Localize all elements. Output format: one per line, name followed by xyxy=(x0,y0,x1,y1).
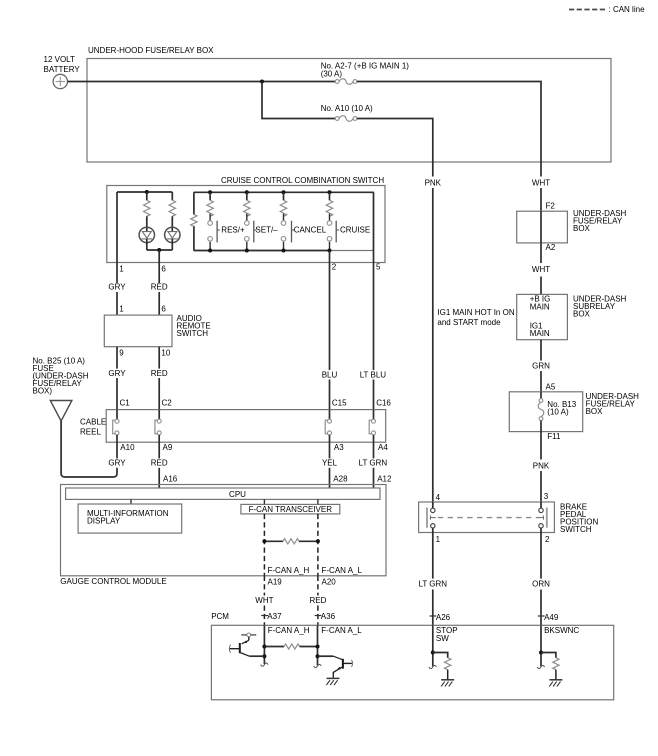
connector reel LT BLU xyxy=(369,410,375,443)
svg-text:F11: F11 xyxy=(547,432,561,441)
switch block inner box xyxy=(194,192,374,250)
svg-text:BOX: BOX xyxy=(586,407,604,416)
switch branch RES/+ xyxy=(207,190,245,252)
svg-text:A5: A5 xyxy=(546,382,556,391)
fuse No. B13 (10 A) xyxy=(538,392,577,432)
svg-text:5: 5 xyxy=(376,262,381,271)
svg-text:1: 1 xyxy=(119,305,124,314)
svg-text:CRUISE: CRUISE xyxy=(340,226,370,235)
svg-text:1: 1 xyxy=(436,535,441,544)
connector reel RED xyxy=(155,410,161,443)
node lamp bottom junction xyxy=(157,248,161,252)
svg-text:: CAN line: : CAN line xyxy=(609,5,646,14)
wire battery to fuse A2-7 xyxy=(68,81,336,83)
svg-text:RED: RED xyxy=(309,596,326,605)
under-hood fuse/relay box xyxy=(87,46,611,162)
svg-text:BOX: BOX xyxy=(573,310,591,319)
svg-text:A49: A49 xyxy=(544,613,559,622)
svg-text:A4: A4 xyxy=(378,443,388,452)
connector reel BLU xyxy=(325,410,331,443)
transistor Q1 CAN high driver xyxy=(229,633,264,656)
wire LT BLU pin 5 to cable reel xyxy=(373,263,375,410)
svg-text:BOX): BOX) xyxy=(33,387,53,396)
svg-text:RED: RED xyxy=(151,282,168,291)
under-dash fuse/relay box B13 xyxy=(509,392,639,432)
svg-text:F-CAN A_L: F-CAN A_L xyxy=(321,626,362,635)
wire CPU to F-CAN transceiver stubs xyxy=(264,499,318,504)
svg-text:9: 9 xyxy=(119,348,124,357)
switch branch CRUISE xyxy=(326,190,370,252)
svg-text:6: 6 xyxy=(161,264,166,273)
wire RED to A16 xyxy=(158,442,160,488)
wire switch bottom rail xyxy=(194,250,330,252)
svg-text:No. A10 (10 A): No. A10 (10 A) xyxy=(321,104,373,113)
pin A36 tick xyxy=(315,615,322,617)
svg-text:RED: RED xyxy=(151,459,168,468)
svg-text:REEL: REEL xyxy=(80,428,101,437)
CAN line legend xyxy=(569,5,645,14)
svg-text:IG1 MAIN HOT In ON: IG1 MAIN HOT In ON xyxy=(437,308,514,317)
cruise control combination switch box xyxy=(107,176,385,263)
node A_L junction 2 xyxy=(316,654,320,658)
svg-text:C16: C16 xyxy=(376,399,391,408)
svg-text:2: 2 xyxy=(332,262,337,271)
svg-text:SW: SW xyxy=(436,634,449,643)
wire switch top rail xyxy=(194,191,374,193)
ground Q2 xyxy=(326,678,339,685)
pull-down resistor bkswnc xyxy=(541,653,559,680)
brake switch right contacts xyxy=(538,502,547,533)
brake switch left contacts xyxy=(427,502,436,533)
svg-text:BATTERY: BATTERY xyxy=(44,65,81,74)
svg-text:RES/+: RES/+ xyxy=(221,226,245,235)
under-dash subrelay box xyxy=(517,294,627,339)
node bkswnc junction xyxy=(539,651,543,655)
lamp 1 xyxy=(139,216,154,250)
svg-text:A12: A12 xyxy=(377,474,392,483)
svg-text:GRN: GRN xyxy=(532,361,550,370)
svg-text:12 VOLT: 12 VOLT xyxy=(44,55,76,64)
wire fuse B25 to A10 column xyxy=(61,421,117,477)
svg-text:SET/–: SET/– xyxy=(255,226,278,235)
ground stop sw xyxy=(441,680,454,687)
svg-text:MAIN: MAIN xyxy=(530,302,550,311)
svg-text:LT GRN: LT GRN xyxy=(359,459,388,468)
svg-text:PNK: PNK xyxy=(425,178,442,187)
svg-text:ORN: ORN xyxy=(532,579,550,588)
wire pin 1 xyxy=(116,192,118,315)
svg-text:A36: A36 xyxy=(321,612,336,621)
svg-text:F-CAN A_H: F-CAN A_H xyxy=(268,626,310,635)
wire GRY audio to cable reel xyxy=(116,347,118,410)
multi-information display box xyxy=(78,504,182,533)
svg-text:F2: F2 xyxy=(546,201,556,210)
svg-text:6: 6 xyxy=(161,305,166,314)
svg-text:A2: A2 xyxy=(546,243,556,252)
cable reel box xyxy=(80,410,386,443)
svg-text:A37: A37 xyxy=(267,612,282,621)
wire fuse A2-7 to WHT column xyxy=(357,82,541,163)
svg-text:1: 1 xyxy=(119,264,124,273)
dashed CAN wire F-CAN A_H inside module xyxy=(263,514,265,576)
svg-text:BKSWNC: BKSWNC xyxy=(544,626,579,635)
svg-text:MAIN: MAIN xyxy=(530,329,550,338)
svg-text:CPU: CPU xyxy=(229,490,246,499)
svg-text:10: 10 xyxy=(161,348,170,357)
wire lamp bottom rail xyxy=(147,249,173,251)
pin A26 tick xyxy=(430,615,437,617)
wire switch right edge to pin 5 xyxy=(373,192,375,262)
lamp 2 xyxy=(165,216,180,250)
node battery feed junction xyxy=(260,80,264,84)
wire YEL to A28 xyxy=(329,442,331,488)
svg-text:A16: A16 xyxy=(163,474,178,483)
wire illumination top rail xyxy=(117,191,172,193)
brake switch mechanical dashed link xyxy=(438,517,539,519)
svg-text:LT BLU: LT BLU xyxy=(360,370,387,379)
svg-text:GRY: GRY xyxy=(108,369,126,378)
wire bkswnc input xyxy=(537,625,544,668)
note IG1 MAIN HOT xyxy=(437,308,514,327)
STOP SW label xyxy=(436,626,458,643)
pin A37 tick xyxy=(261,615,268,617)
svg-text:UNDER-HOOD FUSE/RELAY BOX: UNDER-HOOD FUSE/RELAY BOX xyxy=(88,46,214,55)
svg-text:4: 4 xyxy=(436,493,441,502)
switch branch CANCEL xyxy=(280,190,326,252)
svg-text:A10: A10 xyxy=(120,443,135,452)
svg-text:(10 A): (10 A) xyxy=(547,408,569,417)
wire LT GRN brake to PCM xyxy=(432,533,434,626)
node A_H junction 1 xyxy=(262,645,266,649)
fuse No. A10 (10 A) xyxy=(321,104,373,121)
pull-down resistor stop sw xyxy=(433,653,451,680)
svg-text:WHT: WHT xyxy=(532,265,550,274)
svg-text:F-CAN A_L: F-CAN A_L xyxy=(322,566,363,575)
svg-text:YEL: YEL xyxy=(322,459,338,468)
wire ORN brake to PCM xyxy=(540,533,542,626)
svg-text:GAUGE CONTROL MODULE: GAUGE CONTROL MODULE xyxy=(60,577,166,586)
wire RED audio to cable reel xyxy=(158,347,160,410)
svg-text:BLU: BLU xyxy=(322,370,338,379)
wire PNK column upper xyxy=(432,162,434,502)
svg-text:2: 2 xyxy=(545,535,550,544)
svg-text:RED: RED xyxy=(151,369,168,378)
pin A49 tick xyxy=(538,615,545,617)
wire GRY to fuse junction xyxy=(116,442,118,458)
svg-text:C2: C2 xyxy=(162,399,173,408)
resistor ladder left xyxy=(191,214,197,226)
svg-text:A26: A26 xyxy=(436,613,451,622)
svg-text:F-CAN A_H: F-CAN A_H xyxy=(268,566,310,575)
svg-text:A3: A3 xyxy=(334,443,344,452)
wire pin 6 xyxy=(158,250,160,315)
wire stop sw input xyxy=(429,625,436,668)
connector reel GRY xyxy=(113,410,119,443)
svg-text:WHT: WHT xyxy=(255,596,273,605)
F-CAN transceiver box xyxy=(241,504,340,514)
node A_L junction 1 xyxy=(316,645,320,649)
svg-text:A19: A19 xyxy=(268,578,283,587)
wire A2 to subrelay xyxy=(540,243,542,295)
wire BLU pin 2 to cable reel xyxy=(329,263,331,410)
dashed CAN wire WHT to PCM xyxy=(263,576,265,626)
svg-text:DISPLAY: DISPLAY xyxy=(87,517,121,526)
svg-text:SWITCH: SWITCH xyxy=(177,329,209,338)
node A_H junction 2 xyxy=(262,654,266,658)
gauge control module box xyxy=(60,485,386,587)
switch branch SET/- xyxy=(244,190,279,252)
transistor Q2 CAN low driver xyxy=(318,656,353,678)
svg-text:A28: A28 xyxy=(333,474,348,483)
svg-text:3: 3 xyxy=(544,492,549,501)
wire F11 to brake pedal switch xyxy=(540,432,542,502)
svg-text:CANCEL: CANCEL xyxy=(294,226,327,235)
svg-text:A9: A9 xyxy=(163,443,173,452)
svg-text:GRY: GRY xyxy=(108,282,126,291)
svg-text:C1: C1 xyxy=(120,399,131,408)
node stop sw junction xyxy=(431,651,435,655)
svg-text:and START mode: and START mode xyxy=(437,318,501,327)
svg-text:SWITCH: SWITCH xyxy=(560,525,592,534)
svg-text:F-CAN TRANSCEIVER: F-CAN TRANSCEIVER xyxy=(249,505,333,514)
ground bkswnc xyxy=(549,680,562,687)
CPU bar xyxy=(66,488,380,499)
svg-text:CABLE: CABLE xyxy=(80,418,106,427)
wire LT GRN to A12 xyxy=(373,442,375,488)
svg-text:PCM: PCM xyxy=(211,612,229,621)
fuse No. A2-7 (+B IG MAIN 1) (30 A) xyxy=(321,61,410,84)
termination resistor between CAN lines xyxy=(262,539,320,544)
under-dash fuse/relay box upper xyxy=(517,209,627,243)
wire junction down to fuse A10 xyxy=(262,82,335,119)
svg-text:A20: A20 xyxy=(322,578,337,587)
PCM box xyxy=(211,625,613,700)
wire F-CAN A_H inside PCM xyxy=(261,625,268,666)
svg-text:GRY: GRY xyxy=(108,459,126,468)
wire F-CAN A_L inside PCM xyxy=(314,625,321,667)
brake pedal position switch box xyxy=(419,502,599,534)
fuse B25 triangle symbol xyxy=(50,401,72,422)
resistor lamp 2 xyxy=(169,192,175,216)
svg-text:WHT: WHT xyxy=(532,178,550,187)
wire fuse A10 to PNK column xyxy=(357,119,433,163)
battery B+ xyxy=(44,55,81,89)
resistor lamp 1 xyxy=(144,192,150,216)
wire subrelay to B13 fuse box xyxy=(540,340,542,392)
dashed CAN wire RED to PCM xyxy=(317,576,319,626)
svg-text:C15: C15 xyxy=(332,399,347,408)
node lamp rail junction xyxy=(145,190,149,194)
svg-text:BOX: BOX xyxy=(573,224,591,233)
fuse No. B25 label xyxy=(33,357,89,396)
wire left edge with resistor xyxy=(193,192,195,250)
wire pin 2 down xyxy=(329,251,331,263)
svg-text:PNK: PNK xyxy=(533,462,550,471)
svg-text:(30 A): (30 A) xyxy=(321,69,343,78)
termination resistor PCM xyxy=(264,644,317,649)
svg-text:CRUISE CONTROL COMBINATION SWI: CRUISE CONTROL COMBINATION SWITCH xyxy=(221,176,384,185)
dashed CAN wire F-CAN A_L inside module xyxy=(317,514,319,576)
wire WHT column upper xyxy=(540,162,542,211)
wire CPU to multi-information display xyxy=(130,499,132,504)
svg-text:LT GRN: LT GRN xyxy=(418,579,447,588)
wire through under-dash box xyxy=(540,211,542,243)
audio remote switch box xyxy=(104,314,210,347)
